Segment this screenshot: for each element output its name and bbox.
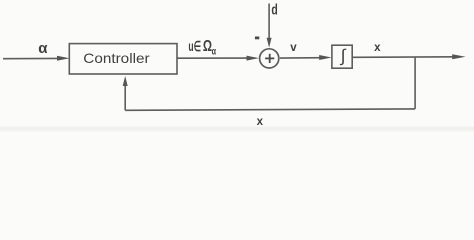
summing junction [260,49,279,68]
svg-text:d: d [271,1,277,18]
minus sign [255,37,259,40]
wire feedback bottom [125,109,415,110]
integrator block [332,45,352,68]
wire input alpha [3,57,59,59]
arrowhead feedback into controller [123,76,128,86]
arrowhead into sum from left [247,56,259,61]
svg-text:x: x [374,42,381,54]
wire sum to integrator [280,57,323,59]
bottom scan band [0,127,474,131]
wire feedback up [124,84,126,110]
svg-text:α: α [38,40,48,57]
arrowhead d into sum [267,38,272,48]
wire integrator output [352,56,454,59]
controller block [69,44,177,74]
svg-text:v: v [290,42,297,54]
wire d input [268,4,270,41]
plus sign [265,54,274,63]
wire feedback down [414,57,416,109]
arrowhead into controller [57,56,70,61]
svg-text:x: x [257,116,264,128]
wire controller to sum [177,57,250,59]
svg-text:u∈: u∈ [188,38,201,54]
svg-text:Controller: Controller [83,50,150,66]
arrowhead into integrator [319,55,331,60]
arrowhead output right [452,54,465,59]
svg-text:α: α [212,47,217,58]
